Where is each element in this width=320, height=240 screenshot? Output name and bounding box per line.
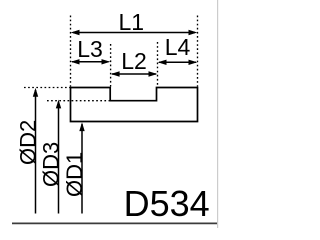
- arrowhead L2 left: [111, 71, 120, 76]
- dimension line L4: [159, 61, 196, 63]
- dimension line D1 vertical x=82: [81, 124, 83, 214]
- dimension L2: [111, 48, 158, 77]
- svg-text:ØD3: ØD3: [38, 142, 63, 187]
- dimension L3: [71, 36, 111, 64]
- arrowhead D3 up: [56, 100, 61, 109]
- svg-text:ØD1: ØD1: [62, 152, 87, 197]
- dimension D1 (bore diameter): [62, 122, 87, 213]
- extension line notch left x=110.6: [110, 44, 112, 87]
- arrowhead L1 left: [71, 30, 80, 35]
- dimension L4: [158, 34, 198, 65]
- svg-text:D534: D534: [124, 183, 210, 224]
- extension line notch right x=157.5: [157, 42, 159, 87]
- extension line right edge x=197.5: [197, 16, 199, 87]
- dimension line L2: [112, 73, 156, 75]
- arrowhead L1 right: [189, 30, 198, 35]
- svg-text:ØD2: ØD2: [15, 120, 40, 165]
- page border right grey line: [217, 0, 219, 228]
- arrowhead L3 left: [71, 59, 80, 64]
- svg-text:L4: L4: [165, 34, 191, 60]
- arrowhead L4 right: [189, 60, 198, 65]
- extension line diameter D2 level y=87.5: [24, 87, 70, 89]
- dimension line D3 vertical x=58.5: [58, 102, 60, 214]
- dimension D2 (outer diameter): [15, 88, 40, 214]
- arrowhead L3 right: [102, 59, 111, 64]
- dimension line D2 vertical x=35.5: [35, 90, 37, 214]
- part outline (stepped block with top notch): [71, 88, 198, 122]
- svg-text:L2: L2: [121, 48, 147, 74]
- baseline bottom rule: [12, 222, 217, 224]
- extension line left edge x=70.5: [70, 16, 72, 87]
- svg-text:L1: L1: [119, 9, 145, 35]
- arrowhead L4 left: [158, 60, 167, 65]
- dimension line L1: [73, 32, 195, 34]
- arrowhead D2 up: [33, 88, 38, 97]
- svg-text:L3: L3: [77, 36, 103, 62]
- dimension D3 (notch floor diameter): [38, 100, 63, 214]
- extension line diameter D3 level y=100.7: [47, 100, 110, 102]
- dimension line L3: [72, 61, 109, 63]
- dimension L1: [71, 9, 198, 35]
- arrowhead D1 up: [79, 122, 84, 131]
- arrowhead L2 right: [149, 71, 158, 76]
